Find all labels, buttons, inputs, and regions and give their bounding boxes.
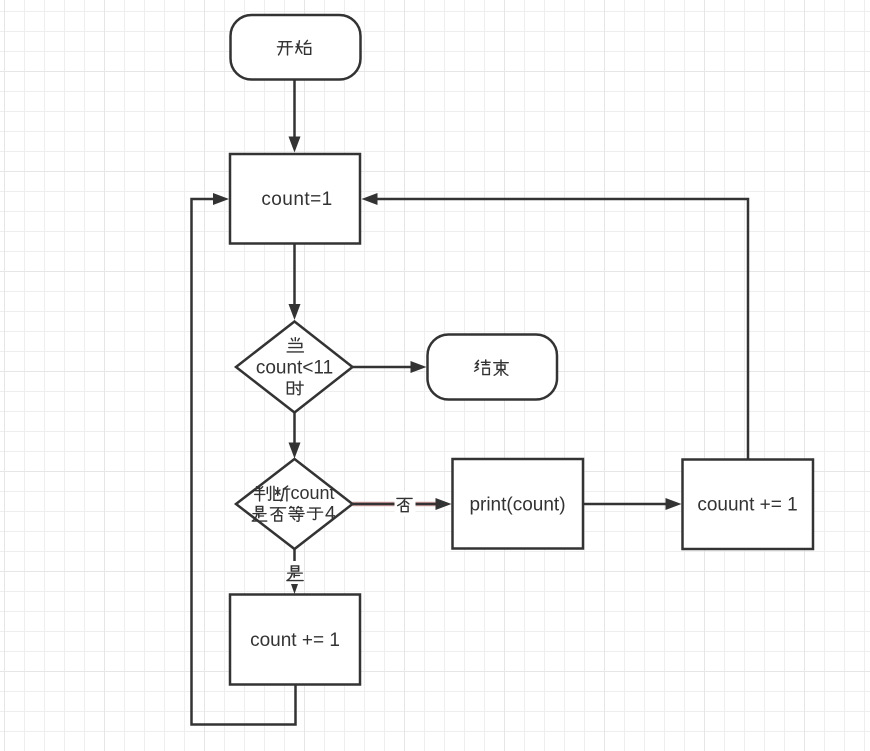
- wire decision1 to decision2: [293, 413, 296, 445]
- process couunt += 1: [683, 460, 814, 550]
- svg-text:print(count): print(count): [469, 495, 565, 516]
- process print(count): [453, 459, 584, 549]
- arrowhead into count=1 right: [362, 193, 378, 205]
- process count=1: [230, 154, 360, 244]
- arrowhead into end left: [411, 361, 427, 373]
- label 否 background: [395, 492, 416, 517]
- wire count+=1 loop back to count=1: [192, 199, 296, 725]
- decision count<11: [236, 322, 353, 413]
- arrowhead into count=1 top: [289, 137, 301, 153]
- arrowhead into count=1 left: [213, 193, 229, 205]
- process count += 1: [230, 595, 360, 685]
- wire decision2 to print(count): [353, 503, 437, 506]
- arrowhead into decision2 top: [289, 443, 301, 459]
- arrowhead into count+=1 top: [291, 584, 298, 594]
- svg-text:count=1: count=1: [261, 189, 332, 210]
- wire decision2 to count+=1: [293, 549, 296, 561]
- wire count=1 to decision1: [293, 244, 296, 305]
- svg-text:count += 1: count += 1: [250, 630, 340, 651]
- label 否: [397, 498, 412, 511]
- svg-text:4: 4: [325, 504, 336, 525]
- svg-text:count<11: count<11: [256, 358, 333, 379]
- wire decision1 to end: [353, 366, 413, 369]
- arrowhead into print(count) left: [436, 498, 452, 510]
- decision 判断count是否等于4: [236, 459, 353, 549]
- arrowhead into couunt left: [666, 498, 682, 510]
- wire print(count) to couunt: [583, 503, 666, 506]
- terminator 结束: [428, 335, 558, 400]
- terminator 开始: [231, 15, 361, 80]
- label 是: [287, 566, 303, 581]
- wire decision2 to print(count) (red underlay): [353, 502, 437, 507]
- wire start to count=1: [293, 80, 296, 138]
- svg-text:count: count: [291, 483, 335, 503]
- arrowhead into decision1 top: [289, 304, 301, 320]
- svg-text:couunt += 1: couunt += 1: [697, 495, 797, 516]
- wire couunt up and left to count=1: [377, 199, 748, 459]
